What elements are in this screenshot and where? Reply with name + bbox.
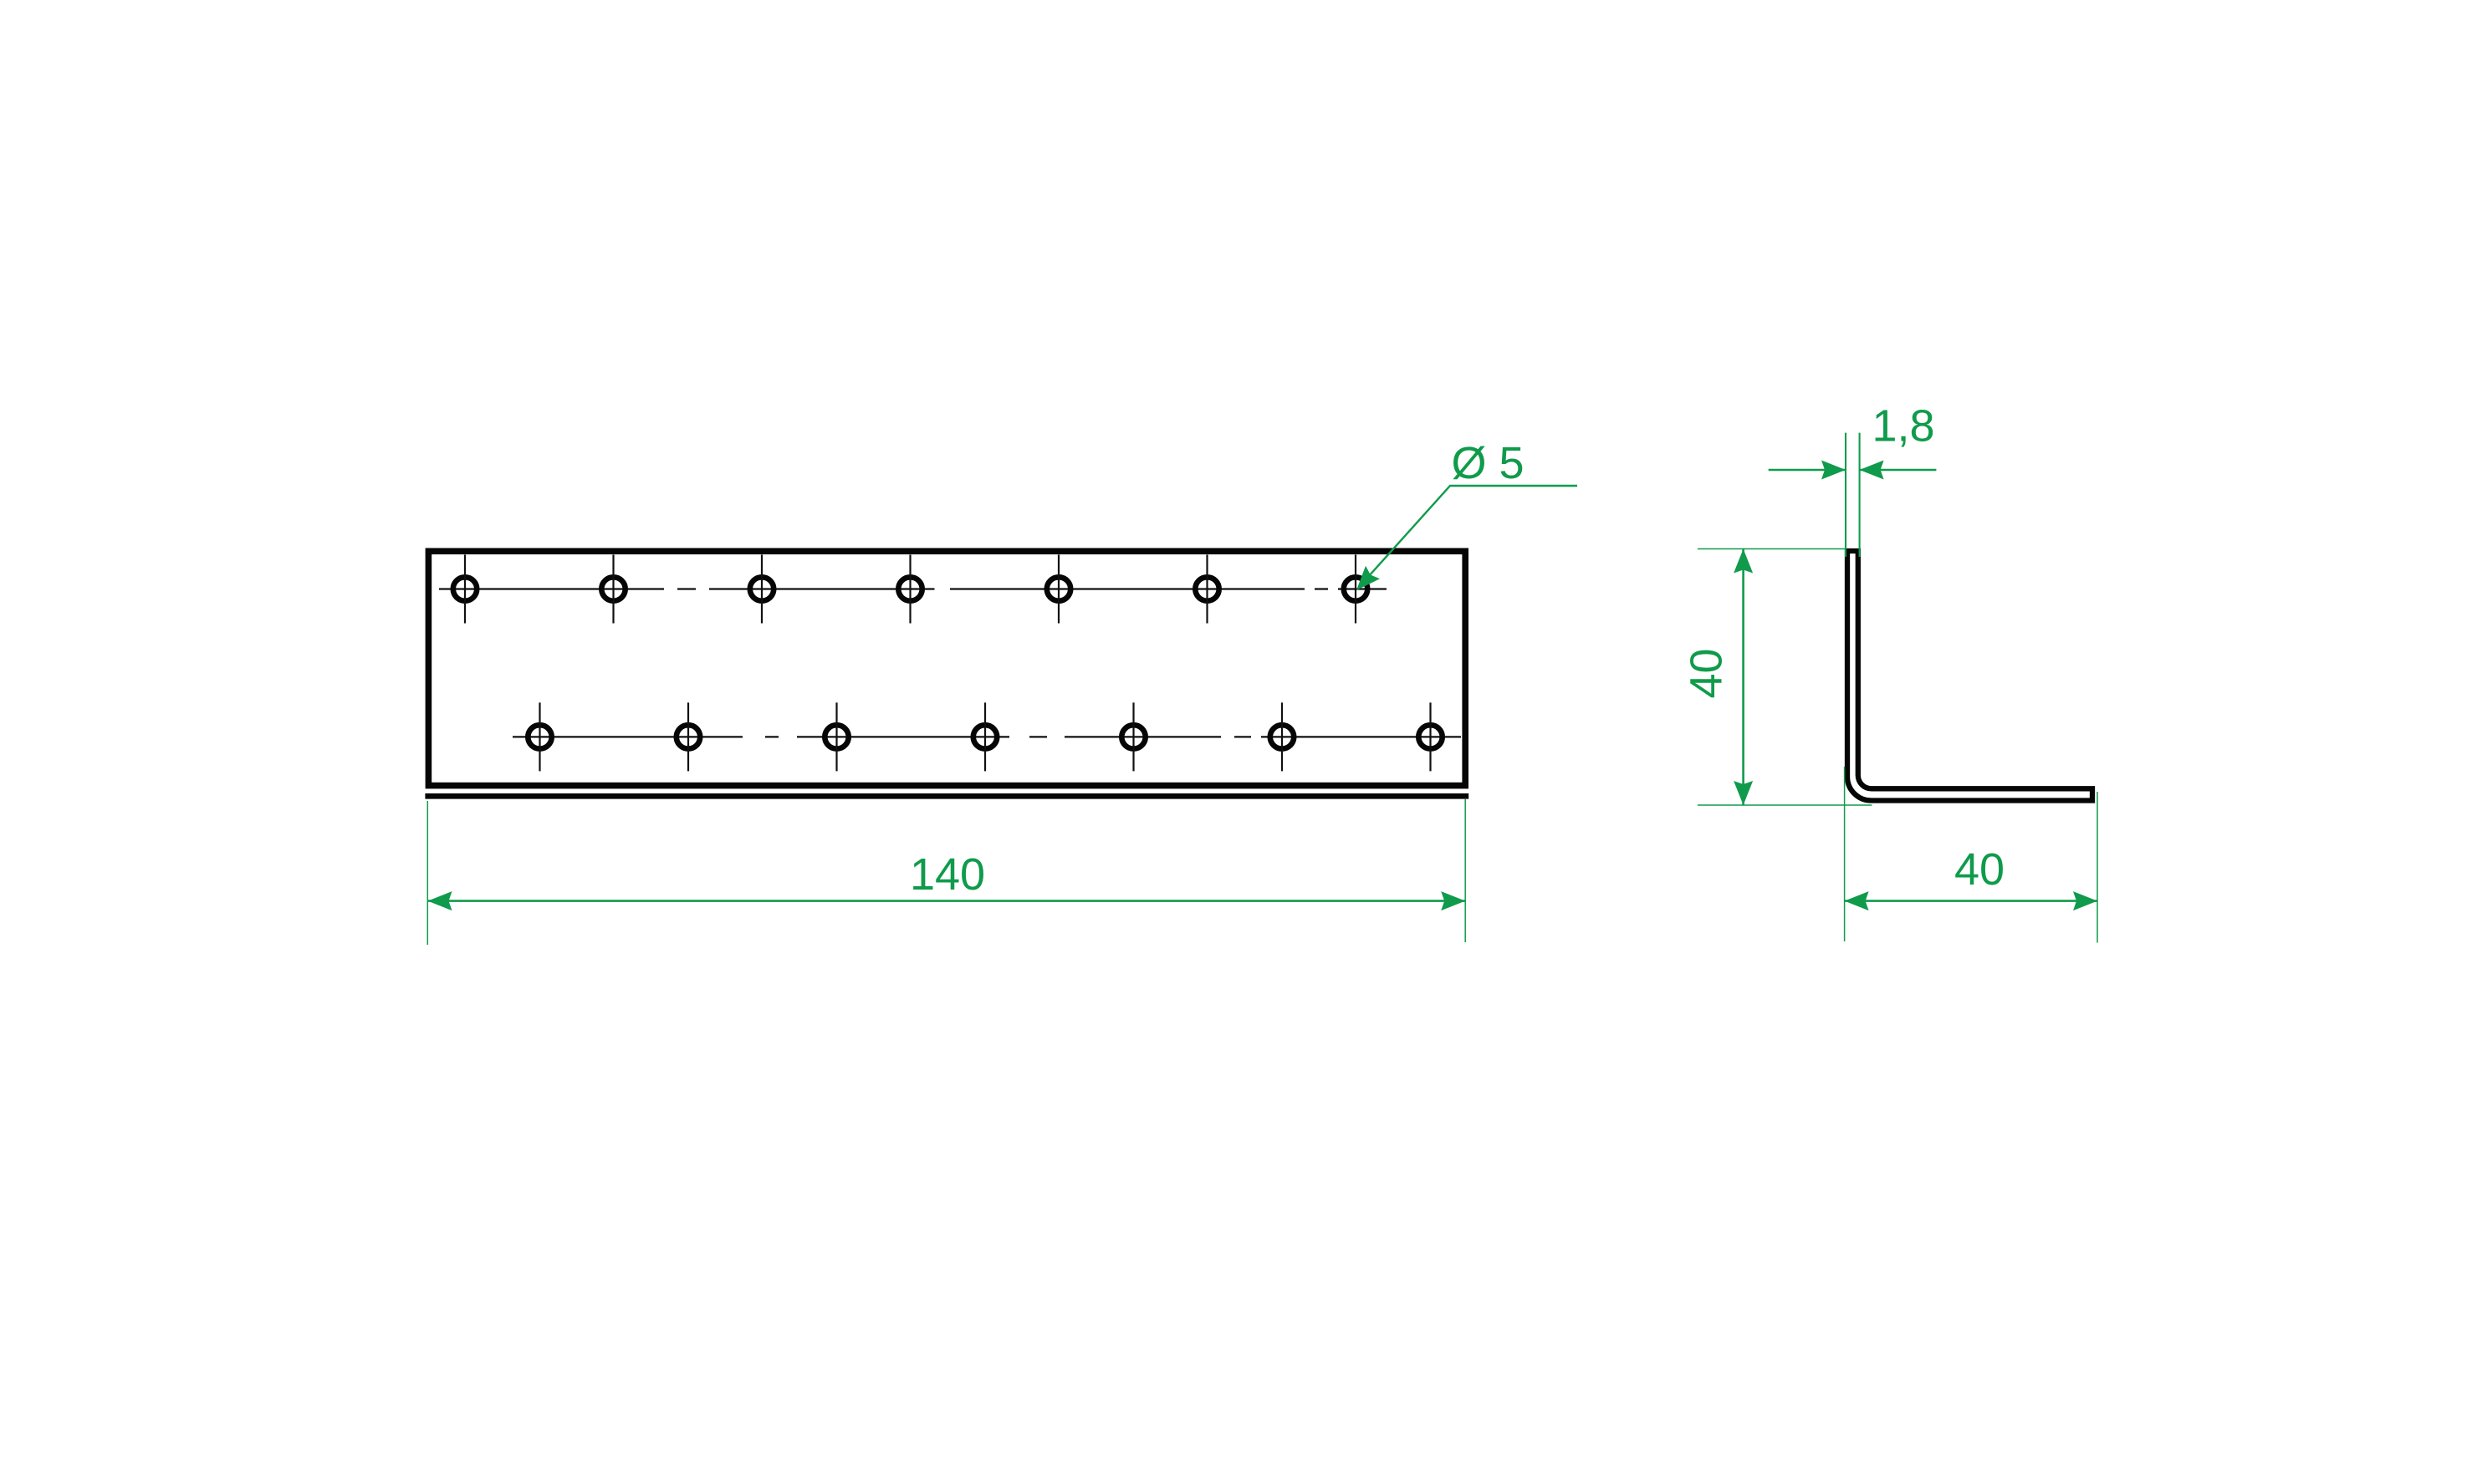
hole B3: [825, 702, 848, 771]
dimension 1,8 arrow right: [1860, 461, 1884, 480]
svg-text:1,8: 1,8: [1872, 401, 1934, 451]
centerline bottom row: [513, 736, 1461, 737]
hole T4: [898, 555, 922, 624]
hole B7: [1418, 702, 1442, 771]
dimension 40 vertical line: [1742, 549, 1744, 805]
dimension 1,8 extension line left: [1845, 433, 1846, 557]
dimension 40 horizontal extension line right: [2097, 792, 2098, 943]
dimension 40 vertical arrow top: [1734, 549, 1753, 574]
svg-text:40: 40: [1954, 844, 2005, 895]
dimension 40 vertical extension line bottom: [1698, 804, 1872, 806]
hole T2: [601, 555, 625, 624]
side view L profile: [1847, 551, 2092, 801]
dimension 140 arrow left: [428, 891, 452, 910]
svg-text:140: 140: [910, 849, 985, 900]
hole B5: [1121, 702, 1145, 771]
dimension 40 horizontal arrow right: [2073, 891, 2097, 910]
hole T1: [453, 555, 477, 624]
svg-text:Ø 5: Ø 5: [1451, 438, 1524, 488]
hole B6: [1270, 702, 1294, 771]
svg-text:40: 40: [1682, 648, 1732, 698]
dimension 1,8 shaft left: [1769, 469, 1846, 472]
hole B2: [677, 702, 700, 771]
dimension 140 arrow right: [1441, 891, 1465, 910]
dimension 1,8 arrow left: [1821, 461, 1846, 480]
dimension 40 vertical arrow bottom: [1734, 781, 1753, 805]
dimension 40 horizontal arrow left: [1845, 891, 1869, 910]
dimension 40 vertical extension line top: [1698, 548, 1846, 550]
hole B4: [973, 702, 997, 771]
hole T5: [1047, 555, 1070, 624]
leader line diameter label: [1356, 486, 1577, 590]
dimension 140 extension line right: [1464, 799, 1466, 942]
hole B1: [528, 702, 551, 771]
dimension 140 line: [428, 900, 1465, 902]
dimension 1,8 shaft right: [1860, 469, 1937, 472]
dimension 140 extension line left: [426, 801, 428, 945]
dimension 1,8 extension line right: [1859, 433, 1861, 557]
front view plate outline: [428, 551, 1465, 785]
dimension 40 horizontal extension line left: [1844, 767, 1846, 941]
dimension 40 horizontal line: [1845, 900, 2097, 902]
flange bend line: [425, 793, 1468, 799]
hole T3: [750, 555, 774, 624]
hole T6: [1195, 555, 1218, 624]
centerline top row: [439, 588, 1387, 589]
hole T7: [1344, 555, 1367, 624]
